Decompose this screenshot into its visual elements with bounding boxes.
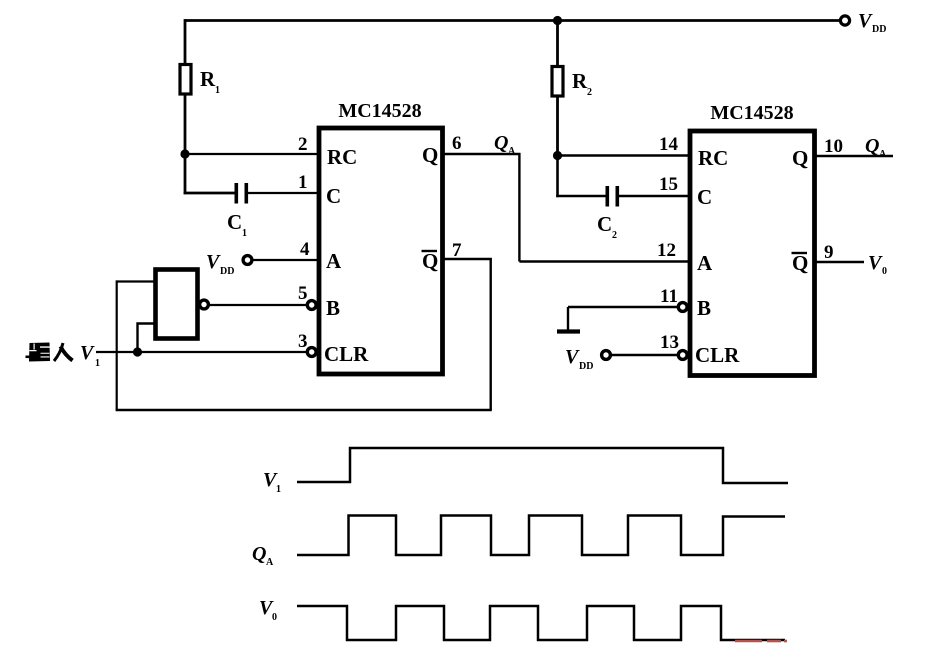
capacitor C2	[605, 186, 609, 207]
wire input V1 to pin 3	[96, 351, 307, 353]
svg-text:DD: DD	[220, 266, 234, 277]
svg-text:A: A	[326, 249, 342, 273]
resistor R1	[180, 65, 191, 95]
wire feedback left vertical	[116, 280, 118, 410]
svg-text:3: 3	[298, 331, 308, 352]
label input (Chinese ru)	[54, 343, 73, 361]
wire gate output to pin 5 B	[209, 304, 307, 306]
svg-text:MC14528: MC14528	[338, 100, 421, 122]
wire pin 4 A	[253, 259, 318, 261]
wire pin 2 RC	[185, 153, 317, 155]
svg-text:CLR: CLR	[695, 343, 740, 367]
wire C1 left	[184, 192, 236, 195]
wire V1 junction up to gate lower input	[138, 324, 156, 353]
svg-text:1: 1	[95, 358, 100, 369]
svg-text:Q: Q	[252, 543, 266, 565]
svg-text:A: A	[879, 149, 887, 160]
svg-text:Q: Q	[865, 135, 879, 157]
wire C2 left	[556, 195, 607, 198]
svg-text:Q: Q	[792, 146, 808, 170]
wire feedback bottom rail	[116, 409, 492, 412]
svg-text:10: 10	[824, 136, 843, 157]
waveform V1	[297, 448, 788, 483]
pin 5 bubble	[307, 301, 316, 310]
svg-text:7: 7	[452, 240, 462, 261]
terminal bubble VDD pin 4	[243, 256, 252, 265]
ground (low level bar)	[557, 329, 580, 333]
red dashed artifact	[735, 640, 762, 643]
svg-text:MC14528: MC14528	[710, 102, 793, 124]
wire QA to pin 12 A (U2)	[519, 260, 688, 262]
wire R2 bottom	[556, 96, 559, 156]
terminal VDD top right	[840, 16, 849, 25]
waveform V0	[297, 606, 785, 640]
wire pin 6 Q (U1)	[443, 153, 521, 155]
svg-text:V: V	[858, 10, 873, 32]
svg-text:11: 11	[660, 286, 678, 307]
wire R1 top	[184, 19, 187, 65]
pin 13 bubble	[678, 351, 687, 360]
svg-text:B: B	[326, 296, 340, 320]
svg-text:15: 15	[659, 174, 678, 195]
pin 3 bubble	[307, 348, 316, 357]
svg-text:5: 5	[298, 283, 308, 304]
svg-text:RC: RC	[327, 145, 357, 169]
svg-text:Q: Q	[792, 251, 808, 275]
svg-text:V: V	[565, 346, 580, 368]
junction node RC2	[553, 151, 562, 160]
wire RC2 node down to C2	[556, 156, 559, 198]
svg-text:C: C	[697, 185, 712, 209]
svg-text:12: 12	[657, 240, 676, 261]
svg-text:RC: RC	[698, 146, 728, 170]
svg-text:2: 2	[587, 87, 592, 98]
svg-text:1: 1	[298, 172, 308, 193]
svg-text:R: R	[572, 69, 588, 93]
wire R1 bottom	[184, 94, 187, 154]
wire QA vertical	[518, 153, 520, 262]
wire RC node down to C1	[184, 154, 187, 194]
wire R2 top	[556, 21, 559, 68]
wire pin 10 Q (U2)	[816, 155, 893, 157]
svg-text:V: V	[868, 252, 883, 274]
svg-text:C: C	[227, 210, 242, 234]
wire pin 13 CLR (U2)	[611, 354, 678, 356]
svg-text:Q: Q	[422, 249, 438, 273]
svg-text:C: C	[597, 212, 612, 236]
svg-text:2: 2	[298, 134, 308, 155]
wire pin 11 down to ground	[567, 307, 569, 330]
junction on top rail to R2	[553, 16, 562, 25]
wire pin 7 Qbar (U1)	[443, 258, 492, 260]
pin 11 bubble	[678, 303, 687, 312]
IC U2 MC14528	[690, 131, 815, 376]
wire VDD top rail	[185, 19, 845, 22]
wire C2 right to pin 15	[619, 195, 688, 197]
svg-text:A: A	[697, 251, 713, 275]
svg-text:CLR: CLR	[324, 342, 369, 366]
junction dot on input line	[133, 347, 142, 356]
wire pin 9 Qbar (U2)	[816, 261, 864, 263]
svg-text:14: 14	[659, 134, 679, 155]
gate G1	[156, 270, 198, 339]
IC U1 MC14528	[319, 128, 443, 374]
svg-text:DD: DD	[872, 24, 886, 35]
svg-text:R: R	[200, 67, 216, 91]
svg-text:13: 13	[660, 332, 679, 353]
label input (Chinese shu)	[26, 343, 51, 362]
junction node RC1	[180, 149, 189, 158]
waveform QA	[297, 516, 785, 556]
svg-text:V: V	[80, 342, 95, 364]
resistor R2	[552, 67, 563, 97]
terminal bubble VDD pin 13	[602, 351, 611, 360]
wire pin 11 B (U2)	[568, 306, 678, 308]
svg-text:B: B	[697, 296, 711, 320]
svg-text:1: 1	[276, 484, 281, 495]
svg-text:A: A	[508, 146, 516, 157]
svg-text:1: 1	[215, 85, 220, 96]
wire pin 14 RC (U2)	[558, 154, 689, 156]
svg-text:9: 9	[824, 242, 834, 263]
wire feedback to gate upper input	[117, 280, 155, 282]
wire C1 right to pin 1	[248, 192, 317, 194]
svg-text:0: 0	[272, 612, 277, 623]
svg-text:2: 2	[612, 230, 617, 241]
svg-text:V: V	[206, 251, 221, 273]
svg-text:1: 1	[242, 228, 247, 239]
wire feedback right vertical	[490, 258, 492, 410]
svg-text:Q: Q	[494, 132, 508, 154]
gate G1 output bubble	[200, 300, 209, 309]
svg-text:4: 4	[300, 239, 310, 260]
svg-text:A: A	[266, 557, 274, 568]
capacitor C1	[235, 183, 239, 204]
svg-text:C: C	[326, 184, 341, 208]
svg-text:0: 0	[882, 266, 887, 277]
svg-text:Q: Q	[422, 143, 438, 167]
svg-text:DD: DD	[579, 361, 593, 372]
svg-text:6: 6	[452, 133, 462, 154]
